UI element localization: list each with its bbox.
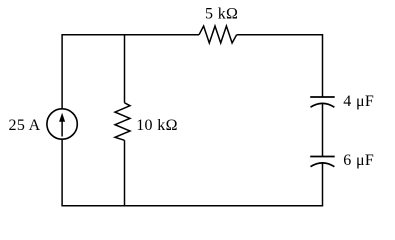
capacitor C1 curved plate bbox=[311, 103, 335, 107]
wire left upper bbox=[61, 34, 63, 109]
wire top-left segment bbox=[62, 34, 199, 36]
svg-text:25 A: 25 A bbox=[9, 117, 41, 134]
capacitor C2 top plate bbox=[310, 156, 335, 158]
wire bottom bbox=[61, 205, 323, 207]
wire right upper bbox=[322, 34, 324, 97]
current source I1 circle bbox=[47, 109, 77, 139]
svg-text:10 kΩ: 10 kΩ bbox=[136, 117, 178, 134]
svg-text:6 μF: 6 μF bbox=[343, 152, 374, 169]
capacitor C2 curved plate bbox=[311, 163, 335, 167]
current source I1 arrow bbox=[60, 114, 65, 137]
resistor R1 zigzag bbox=[199, 26, 237, 43]
capacitor C1 top plate bbox=[310, 96, 335, 98]
wire middle lower bbox=[124, 140, 126, 206]
wire middle upper bbox=[124, 34, 126, 103]
wire left lower bbox=[61, 139, 63, 206]
wire top-right segment bbox=[237, 34, 323, 36]
svg-text:4 μF: 4 μF bbox=[343, 93, 374, 110]
svg-text:5 kΩ: 5 kΩ bbox=[205, 6, 238, 23]
wire between capacitors bbox=[322, 104, 324, 157]
resistor R2 zigzag bbox=[115, 103, 130, 141]
wire right lower bbox=[322, 163, 324, 206]
